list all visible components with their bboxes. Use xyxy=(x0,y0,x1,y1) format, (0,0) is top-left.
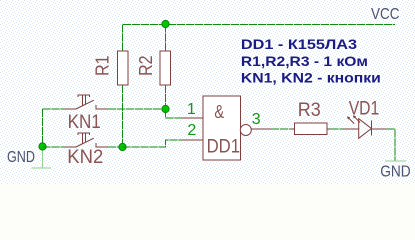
wire VCC rail xyxy=(123,24,395,26)
wire R2 top xyxy=(165,25,167,52)
svg-text:&: & xyxy=(214,101,224,122)
svg-text:GND: GND xyxy=(380,164,411,181)
svg-text:2: 2 xyxy=(187,122,196,139)
wire pin3 to R3 xyxy=(271,128,291,130)
pin 2 stub xyxy=(182,139,203,141)
svg-text:DD1: DD1 xyxy=(207,135,241,157)
switch KN1 xyxy=(65,95,108,109)
junction left rail KN2 xyxy=(39,143,46,150)
svg-text:KN1: KN1 xyxy=(68,111,101,133)
wire R1 bottom to KN2 row xyxy=(122,85,124,147)
junction VCC-R2 xyxy=(162,20,169,27)
svg-text:3: 3 xyxy=(252,111,261,128)
pin 3 stub xyxy=(251,128,271,130)
wire KN2 to pin2 xyxy=(123,140,183,147)
resistor R1 xyxy=(93,51,128,85)
ground right xyxy=(385,160,406,162)
svg-text:VCC: VCC xyxy=(371,6,400,23)
wire junction to pin1 xyxy=(166,109,183,118)
logic gate DD1 (NAND) xyxy=(203,96,241,160)
diode VD1 (LED) xyxy=(343,116,387,139)
svg-text:GND: GND xyxy=(7,149,35,166)
inversion bubble DD1 output xyxy=(240,125,251,136)
svg-text:R2: R2 xyxy=(136,55,156,76)
wire R1 top xyxy=(122,25,124,52)
svg-text:R1,R2,R3 - 1 кОм: R1,R2,R3 - 1 кОм xyxy=(241,53,368,69)
junction R1-KN2 xyxy=(119,143,126,150)
wire R3 to VD1 xyxy=(331,128,344,130)
svg-text:KN2: KN2 xyxy=(67,146,103,168)
wire KN1 right to junction xyxy=(108,108,166,110)
resistor R2 xyxy=(136,51,171,85)
pin 1 stub xyxy=(182,117,203,119)
switch KN2 xyxy=(65,133,108,147)
resistor R3 xyxy=(290,100,330,135)
wire left rail GND xyxy=(42,109,44,168)
svg-text:KN1, KN2 - кнопки: KN1, KN2 - кнопки xyxy=(241,70,381,86)
ground left xyxy=(32,167,52,169)
svg-text:R3: R3 xyxy=(298,100,321,121)
svg-text:DD1 - К155ЛА3: DD1 - К155ЛА3 xyxy=(241,36,357,52)
junction R2-KN1 xyxy=(162,105,169,112)
wire R2 bottom to KN1 row xyxy=(165,85,167,109)
svg-text:VD1: VD1 xyxy=(349,99,380,120)
svg-text:R1: R1 xyxy=(93,55,113,76)
wire KN1 left xyxy=(43,108,65,110)
arrowheads VD1 xyxy=(347,116,350,119)
wire KN2 right xyxy=(108,146,123,148)
wire VD1 to GND right xyxy=(387,129,395,161)
wire KN2 left xyxy=(43,146,65,148)
svg-text:1: 1 xyxy=(187,101,196,118)
